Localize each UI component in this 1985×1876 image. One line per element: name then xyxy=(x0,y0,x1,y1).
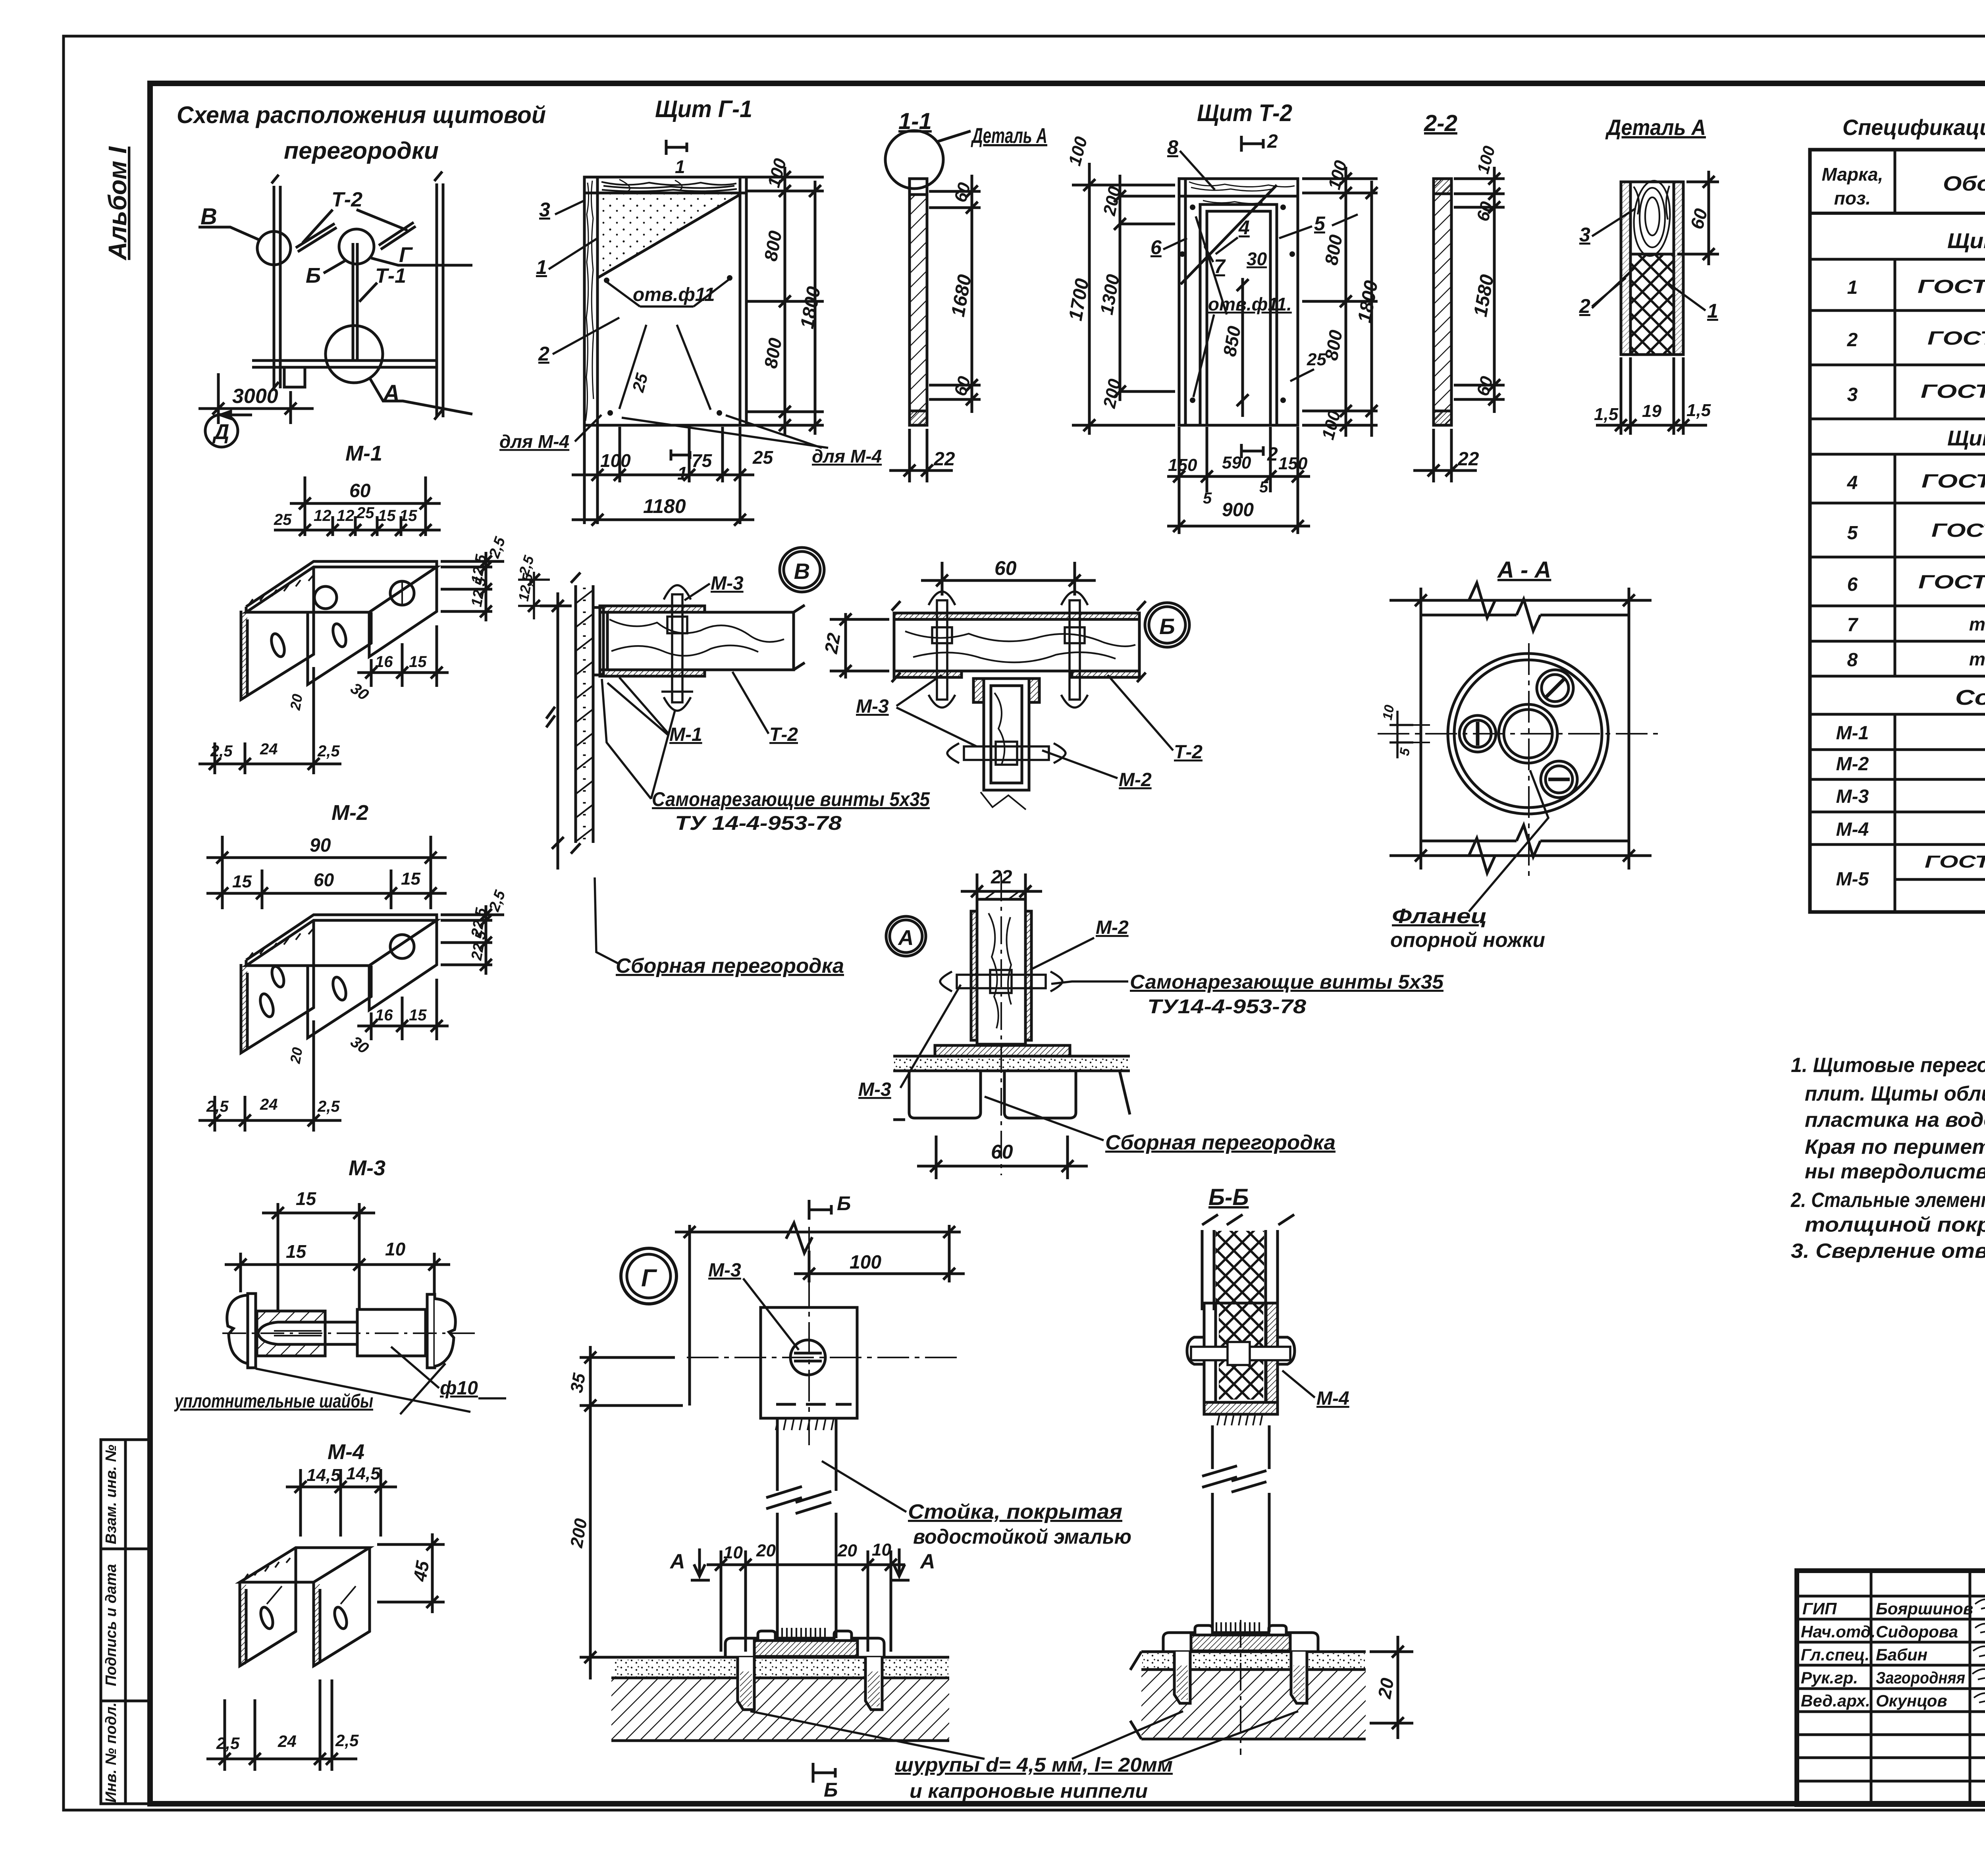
detail V wall xyxy=(571,573,593,854)
svg-text:1180: 1180 xyxy=(643,495,686,517)
svg-text:2-2: 2-2 xyxy=(1424,110,1457,136)
svg-text:и капроновые ниппели: и капроновые ниппели xyxy=(910,1780,1148,1802)
svg-text:М-1: М-1 xyxy=(669,724,702,745)
section 1-1 right dims xyxy=(929,175,981,413)
svg-text:15: 15 xyxy=(401,869,420,889)
bracket M-1 holes xyxy=(269,632,287,658)
svg-text:поз.: поз. xyxy=(1834,188,1871,208)
svg-text:1: 1 xyxy=(536,256,547,278)
detail A dim 60 xyxy=(1677,171,1719,265)
svg-text:5: 5 xyxy=(1259,478,1268,496)
detail B dim 60 xyxy=(921,562,1096,596)
svg-text:6: 6 xyxy=(1151,236,1162,258)
svg-text:22: 22 xyxy=(820,631,844,656)
svg-text:15: 15 xyxy=(286,1241,307,1262)
svg-text:шурупы d= 4,5 мм, l= 20мм: шурупы d= 4,5 мм, l= 20мм xyxy=(895,1754,1173,1776)
svg-text:Деталь А: Деталь А xyxy=(971,124,1047,148)
svg-text:1: 1 xyxy=(677,463,688,484)
svg-text:3. Сверление отверстий осущест: 3. Сверление отверстий осуществлять при … xyxy=(1791,1240,1985,1263)
panel G-1 cut flags 1 xyxy=(666,140,690,461)
svg-text:25: 25 xyxy=(274,511,292,528)
svg-text:ГИП: ГИП xyxy=(1802,1599,1837,1618)
svg-text:24: 24 xyxy=(278,1732,297,1751)
detail A bottom dims xyxy=(1596,357,1707,435)
svg-text:Щит Т-1 (1шт): Щит Т-1 (1шт) xyxy=(1947,229,1985,253)
flange hub xyxy=(1499,704,1557,763)
svg-text:А: А xyxy=(898,926,914,950)
svg-text:15: 15 xyxy=(378,507,396,524)
detail A-node bolt xyxy=(940,970,1062,993)
detail G dims 10 20 20 10 xyxy=(707,1550,905,1652)
svg-text:30: 30 xyxy=(1247,249,1267,269)
svg-text:150: 150 xyxy=(1168,455,1197,475)
section B-B column top xyxy=(1202,1215,1294,1310)
flange screw bottom xyxy=(1541,761,1577,798)
svg-text:1: 1 xyxy=(1847,277,1858,298)
bracket M-4 holes xyxy=(258,1606,275,1630)
svg-text:45: 45 xyxy=(409,1559,433,1583)
svg-text:19: 19 xyxy=(1642,401,1661,421)
svg-text:А: А xyxy=(919,1550,935,1573)
bracket M-1 top dims xyxy=(274,476,441,536)
svg-text:М-2: М-2 xyxy=(1119,769,1152,791)
svg-text:10: 10 xyxy=(385,1239,406,1259)
svg-text:Гл.спец.: Гл.спец. xyxy=(1801,1645,1869,1664)
svg-text:Бояршинов: Бояршинов xyxy=(1876,1599,1973,1618)
bracket M-1 body xyxy=(241,561,437,700)
svg-text:Б: Б xyxy=(837,1192,851,1215)
svg-text:Схема расположения щитовой: Схема расположения щитовой xyxy=(177,102,546,128)
svg-text:то же: то же xyxy=(1969,614,1985,634)
svg-text:ГОСТ 8486-66**: ГОСТ 8486-66** xyxy=(1921,381,1985,402)
svg-text:90: 90 xyxy=(310,835,331,856)
section B-B base plate xyxy=(1163,1625,1318,1652)
section A-A square xyxy=(1389,583,1652,873)
panel T-2 wood grain xyxy=(1189,182,1295,187)
svg-text:то же: то же xyxy=(1969,649,1985,669)
signature squiggles xyxy=(1972,1597,1985,1718)
svg-text:20: 20 xyxy=(837,1541,857,1560)
svg-text:2: 2 xyxy=(1847,330,1858,351)
svg-text:14,5: 14,5 xyxy=(346,1464,380,1483)
section B-B stem xyxy=(1202,1425,1269,1632)
bracket M-2 top dims xyxy=(206,836,447,909)
svg-text:перегородки: перегородки xyxy=(284,137,439,164)
svg-text:Т-1: Т-1 xyxy=(375,264,406,287)
svg-text:10: 10 xyxy=(1380,704,1397,721)
svg-text:24: 24 xyxy=(260,740,278,758)
section B-B floor xyxy=(1141,1650,1366,1653)
svg-text:2,5: 2,5 xyxy=(335,1731,359,1750)
svg-text:водостойкой эмалью: водостойкой эмалью xyxy=(913,1525,1131,1548)
section B-B shoe bolt xyxy=(1191,1342,1290,1365)
svg-text:5: 5 xyxy=(1314,212,1326,235)
svg-text:12: 12 xyxy=(337,507,355,524)
svg-text:отв.ф11: отв.ф11 xyxy=(633,284,715,305)
svg-text:М-4: М-4 xyxy=(328,1440,364,1464)
svg-text:35: 35 xyxy=(567,1372,590,1394)
svg-text:4: 4 xyxy=(1238,216,1250,239)
detail G left height dims xyxy=(580,1346,683,1679)
svg-text:пластика на водостойком клею.: пластика на водостойком клею. xyxy=(1805,1109,1985,1132)
svg-text:60: 60 xyxy=(994,557,1017,579)
svg-text:15: 15 xyxy=(409,653,427,671)
svg-text:Взам. инв. №: Взам. инв. № xyxy=(103,1445,119,1544)
svg-text:М-1: М-1 xyxy=(1836,723,1869,744)
svg-text:Б: Б xyxy=(824,1779,838,1801)
detail G base plate xyxy=(725,1631,884,1657)
panel G-1 outline xyxy=(584,177,746,425)
plan: right wall xyxy=(436,183,438,417)
svg-text:2,5: 2,5 xyxy=(210,742,233,760)
detail B panel xyxy=(892,601,1146,682)
left margin boxes xyxy=(101,1440,150,1804)
plan: wall step xyxy=(284,367,305,387)
detail A-node dim 60 xyxy=(917,1136,1088,1179)
svg-text:5: 5 xyxy=(1847,523,1858,544)
svg-text:М-3: М-3 xyxy=(856,696,889,717)
detail G slab xyxy=(611,1678,949,1741)
section 2-2 bottom dim 22 xyxy=(1413,429,1477,482)
detail B stub bolt xyxy=(947,742,1066,765)
svg-text:Бабин: Бабин xyxy=(1876,1645,1927,1664)
svg-text:ТУ 14-4-953-78: ТУ 14-4-953-78 xyxy=(675,812,842,834)
svg-text:Щит Т-2: Щит Т-2 xyxy=(1197,100,1292,126)
svg-text:10: 10 xyxy=(872,1540,891,1560)
svg-text:ГОСТ 10632-77*: ГОСТ 10632-77* xyxy=(1918,276,1985,297)
detail B dim 22 xyxy=(830,613,889,679)
bracket M-4 dim 45 xyxy=(377,1533,445,1613)
panel T-2 right dims xyxy=(1302,167,1378,437)
svg-text:Обозначение: Обозначение xyxy=(1943,172,1985,195)
svg-text:Подпись и дата: Подпись и дата xyxy=(103,1564,119,1686)
svg-text:М-2: М-2 xyxy=(331,801,368,825)
svg-text:20: 20 xyxy=(756,1541,776,1560)
panel T-2 left dims xyxy=(1072,163,1175,435)
flange screw left xyxy=(1459,715,1496,752)
plan: leader lines xyxy=(198,227,260,240)
svg-text:М-4: М-4 xyxy=(1316,1388,1349,1409)
panel T-2 bottom dims xyxy=(1167,427,1310,534)
svg-text:2. Стальные элементы подвергну: 2. Стальные элементы подвергнуть многосл… xyxy=(1790,1189,1985,1212)
svg-text:ТУ14-4-953-78: ТУ14-4-953-78 xyxy=(1147,995,1306,1018)
svg-text:2,5: 2,5 xyxy=(206,1098,229,1115)
svg-text:22: 22 xyxy=(933,449,955,470)
specification table grid xyxy=(1810,150,1985,912)
panel T-2 dim 850 xyxy=(1241,278,1244,417)
svg-text:М-4: М-4 xyxy=(1836,819,1869,840)
svg-text:6: 6 xyxy=(1847,574,1858,595)
detail G center lines xyxy=(687,1357,961,1358)
svg-text:1. Щитовые перегородки кабин у: 1. Щитовые перегородки кабин уборных вып… xyxy=(1791,1054,1985,1077)
svg-text:ГОСТ 10632-77*: ГОСТ 10632-77* xyxy=(1921,471,1985,492)
detail G stem xyxy=(766,1418,836,1638)
node V circle xyxy=(780,548,824,592)
plan: partition T-1 xyxy=(352,243,355,361)
panel G-1 dotted face xyxy=(599,195,738,277)
svg-text:ны твердолиственных пород с по: ны твердолиственных пород с покрытием во… xyxy=(1805,1160,1985,1183)
section B-B plugs xyxy=(1174,1652,1307,1703)
svg-text:3000: 3000 xyxy=(232,385,278,408)
detail A callout circle xyxy=(885,131,943,189)
svg-text:60: 60 xyxy=(349,480,371,501)
node A circle xyxy=(886,916,926,956)
flange outer rings xyxy=(1448,654,1608,814)
svg-text:ф10: ф10 xyxy=(440,1378,478,1399)
svg-text:Б: Б xyxy=(306,264,321,287)
detail V corner angle xyxy=(593,607,603,675)
svg-text:2,5: 2,5 xyxy=(216,1734,240,1753)
panel G-1 diagonal xyxy=(597,195,740,278)
detail V left dim stack xyxy=(518,572,550,619)
svg-text:А - А: А - А xyxy=(1497,557,1551,583)
section B-B comb xyxy=(1217,1414,1262,1425)
svg-text:150: 150 xyxy=(1278,454,1308,473)
detail A cross hatch xyxy=(1632,255,1673,353)
svg-text:24: 24 xyxy=(260,1096,278,1113)
bracket M-4 bottom dims xyxy=(206,1679,357,1771)
plan: bottom wall xyxy=(252,359,437,362)
svg-text:М-1: М-1 xyxy=(345,442,382,465)
svg-text:Т-2: Т-2 xyxy=(1174,742,1203,763)
svg-text:ГОСТ 8486-66**: ГОСТ 8486-66** xyxy=(1918,572,1985,593)
svg-text:Марка,: Марка, xyxy=(1822,164,1883,185)
svg-text:900: 900 xyxy=(1222,499,1254,521)
svg-text:15: 15 xyxy=(296,1188,317,1209)
svg-text:590: 590 xyxy=(1222,453,1251,472)
svg-text:4: 4 xyxy=(1847,472,1858,494)
bracket M-4 top dims xyxy=(286,1469,397,1537)
svg-text:Б: Б xyxy=(1159,614,1175,639)
panel T-2 outline xyxy=(1179,179,1298,425)
title block grid xyxy=(1797,1571,1985,1805)
panel G-1 hole leaders xyxy=(607,280,729,410)
svg-text:15: 15 xyxy=(409,1006,427,1024)
detail G plate xyxy=(761,1307,857,1418)
detail A body xyxy=(1621,182,1683,355)
section 1-1 bottom dim 22 xyxy=(889,429,953,482)
svg-text:3: 3 xyxy=(539,199,550,221)
detail A-node dim 22 xyxy=(961,873,1042,901)
svg-text:Самонарезающие винты 5х35: Самонарезающие винты 5х35 xyxy=(652,788,930,810)
detail B tee stub xyxy=(973,679,1039,810)
detail G comb under stem xyxy=(782,1628,825,1638)
svg-text:1: 1 xyxy=(1707,300,1718,322)
panel G-1 right dims xyxy=(746,167,824,435)
svg-text:16: 16 xyxy=(375,653,393,671)
svg-text:12: 12 xyxy=(314,507,331,524)
svg-text:14,5: 14,5 xyxy=(306,1465,341,1485)
svg-text:Б-Б: Б-Б xyxy=(1208,1184,1249,1210)
notes paragraph xyxy=(1790,1054,1985,1263)
detail A side strips hatch xyxy=(1622,183,1630,354)
section 2-2 right dims xyxy=(1454,167,1505,413)
svg-text:Г: Г xyxy=(641,1265,657,1292)
svg-text:20: 20 xyxy=(287,1046,306,1065)
svg-text:2: 2 xyxy=(1267,444,1278,465)
panel T-2 cut flag 2 top xyxy=(1241,136,1263,152)
section B-B plug leader xyxy=(1159,1711,1298,1763)
svg-text:Т-2: Т-2 xyxy=(769,724,798,745)
plan: node circle D xyxy=(205,415,238,447)
panel T-2 diagonal xyxy=(1181,185,1277,284)
svg-text:60: 60 xyxy=(314,870,334,890)
bracket M-1 edge hatch xyxy=(241,613,247,698)
svg-text:75: 75 xyxy=(692,450,713,471)
svg-text:8: 8 xyxy=(1167,136,1178,158)
detail V height dim line xyxy=(540,592,572,870)
node G circle xyxy=(621,1248,676,1304)
svg-text:1,5: 1,5 xyxy=(1594,405,1619,424)
section A-A center lines xyxy=(1378,733,1663,735)
svg-text:Загородняя: Загородняя xyxy=(1876,1668,1965,1687)
svg-text:1: 1 xyxy=(675,156,685,177)
detail V panel xyxy=(600,605,805,676)
panel T-2 cut flag 2 bottom xyxy=(1241,444,1263,458)
section A-A small dims xyxy=(1389,711,1413,758)
svg-text:1,5: 1,5 xyxy=(1686,401,1711,420)
svg-text:2: 2 xyxy=(1267,131,1278,152)
bracket M-1 right dims xyxy=(441,552,504,621)
section 1-1 bar xyxy=(910,179,927,425)
plan: brace T-2 right xyxy=(379,222,414,245)
svg-text:В: В xyxy=(200,204,217,229)
svg-text:уплотнительные шайбы: уплотнительные шайбы xyxy=(174,1391,373,1412)
bracket M-4 body xyxy=(240,1548,370,1666)
svg-text:10: 10 xyxy=(723,1543,743,1562)
svg-text:8: 8 xyxy=(1847,650,1858,671)
node B circle xyxy=(1145,603,1189,647)
detail G screw plugs xyxy=(738,1657,882,1710)
svg-text:2,5: 2,5 xyxy=(317,1098,340,1115)
detail G dim 100 xyxy=(808,1251,811,1282)
bracket M-2 lower dims xyxy=(198,979,449,1132)
svg-text:М-3: М-3 xyxy=(711,573,744,594)
detail V bolt M-3 xyxy=(661,585,693,711)
svg-text:2,5: 2,5 xyxy=(317,742,340,760)
svg-text:М-2: М-2 xyxy=(1836,754,1869,775)
svg-text:Г: Г xyxy=(399,243,413,267)
svg-text:3: 3 xyxy=(1579,224,1590,246)
svg-text:100: 100 xyxy=(600,450,631,471)
plan: dim 3000 xyxy=(217,373,220,424)
detail G top dim line xyxy=(675,1223,961,1406)
detail G marker B bottom xyxy=(813,1763,835,1783)
svg-text:М-3: М-3 xyxy=(1836,786,1869,807)
svg-text:ГОСТ 9590-76*: ГОСТ 9590-76* xyxy=(1927,328,1985,349)
section 2-2 bar xyxy=(1434,179,1451,425)
svg-text:ГОСТ 3262-75*: ГОСТ 3262-75* xyxy=(1925,852,1985,871)
svg-text:100: 100 xyxy=(850,1252,881,1273)
svg-text:М-2: М-2 xyxy=(1096,917,1129,938)
plan: node circle V xyxy=(257,231,291,265)
svg-text:Сидорова: Сидорова xyxy=(1876,1622,1958,1641)
svg-text:Т-2: Т-2 xyxy=(331,188,362,211)
svg-text:Сборная перегородка: Сборная перегородка xyxy=(1105,1131,1336,1154)
svg-text:20: 20 xyxy=(1374,1676,1397,1701)
svg-text:Щит Г-1: Щит Г-1 xyxy=(655,96,752,122)
bracket M-2 right dims xyxy=(441,905,504,975)
svg-text:М-5: М-5 xyxy=(1836,869,1869,890)
svg-text:опорной ножки: опорной ножки xyxy=(1390,929,1545,952)
svg-text:3: 3 xyxy=(1847,384,1858,405)
plan: node circle B xyxy=(339,229,374,264)
detail G floor xyxy=(611,1657,949,1741)
flange screw top xyxy=(1537,670,1573,706)
detail A-node base xyxy=(893,1045,1130,1120)
bracket M-2 body xyxy=(241,915,437,1053)
svg-text:для М-4: для М-4 xyxy=(499,431,569,452)
svg-text:5: 5 xyxy=(1203,490,1212,507)
bracket M-2 holes xyxy=(258,992,276,1018)
svg-text:Вед.арх.: Вед.арх. xyxy=(1801,1691,1870,1710)
svg-text:для М-4: для М-4 xyxy=(812,446,882,467)
svg-text:7: 7 xyxy=(1214,255,1226,278)
svg-text:М-3: М-3 xyxy=(858,1079,891,1100)
detail G cut mark B top xyxy=(809,1200,831,1220)
svg-text:Стойка, покрытая: Стойка, покрытая xyxy=(908,1500,1122,1523)
svg-text:25: 25 xyxy=(356,504,374,522)
svg-text:15: 15 xyxy=(399,507,417,524)
svg-text:Рук.гр.: Рук.гр. xyxy=(1801,1668,1858,1687)
detail G comb hatch xyxy=(776,1418,834,1430)
svg-text:Щит Т-2 ( 2шт): Щит Т-2 ( 2шт) xyxy=(1947,426,1985,450)
plan: brace T-2 left xyxy=(296,224,335,248)
bracket M-1 lower dims xyxy=(198,625,449,774)
svg-text:Д: Д xyxy=(212,420,229,444)
svg-text:Края по периметру облицовывают: Края по периметру облицовываются деревян… xyxy=(1805,1136,1985,1159)
svg-text:7: 7 xyxy=(1847,615,1859,636)
svg-text:25: 25 xyxy=(752,447,774,468)
detail A-node post xyxy=(971,891,1031,1044)
panel T-2 edge holes xyxy=(1179,204,1295,403)
svg-text:15: 15 xyxy=(232,872,252,891)
svg-text:Спецификация элементов щитовой: Спецификация элементов щитовой перегород… xyxy=(1842,115,1985,140)
section B-B dim 20 xyxy=(1370,1636,1413,1739)
bolt M-3 body xyxy=(222,1294,476,1368)
svg-text:плит. Щиты облицовываются с дв: плит. Щиты облицовываются с двух сторон … xyxy=(1805,1082,1985,1105)
svg-text:20: 20 xyxy=(287,693,306,712)
svg-text:2: 2 xyxy=(538,343,549,365)
bolt M-3 dims xyxy=(225,1203,450,1310)
svg-text:А: А xyxy=(669,1550,685,1573)
svg-text:16: 16 xyxy=(375,1006,393,1024)
panel T-2 door cutout xyxy=(1200,204,1277,425)
svg-text:Нач.отд.: Нач.отд. xyxy=(1801,1622,1875,1641)
detail A-node center line xyxy=(1000,873,1002,1175)
svg-text:толщиной покрытия 30 мк.: толщиной покрытия 30 мк. xyxy=(1805,1213,1985,1236)
detail G screw circle xyxy=(790,1340,825,1375)
detail B bolts xyxy=(929,592,1088,708)
svg-text:Сборная перегородка: Сборная перегородка xyxy=(616,954,844,978)
svg-text:22: 22 xyxy=(1457,449,1479,470)
panel G-1 corner holes xyxy=(604,275,732,416)
panel G-1 bottom dims xyxy=(572,425,754,524)
svg-text:2: 2 xyxy=(1579,295,1590,317)
section B-B shoe M-4 xyxy=(1187,1303,1295,1414)
svg-text:В: В xyxy=(794,559,810,584)
svg-text:Деталь А: Деталь А xyxy=(1605,115,1706,140)
svg-text:Инв. № подл.: Инв. № подл. xyxy=(103,1702,119,1803)
svg-text:Самонарезающие винты 5х35: Самонарезающие винты 5х35 xyxy=(1130,971,1444,993)
plan: node circle A xyxy=(326,326,383,383)
svg-text:М-3: М-3 xyxy=(349,1156,385,1180)
detail A wood grain ovals xyxy=(1631,179,1672,257)
plan: left wall xyxy=(273,186,276,388)
section B-B center line xyxy=(1240,1620,1241,1755)
svg-text:Соединительные элементы: Соединительные элементы xyxy=(1955,686,1985,710)
svg-text:Альбом I: Альбом I xyxy=(103,146,132,261)
